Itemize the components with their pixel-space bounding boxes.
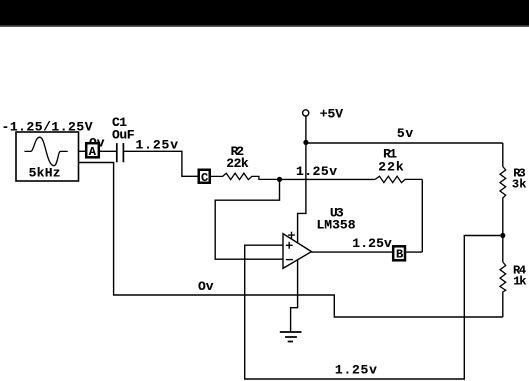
svg-text:OuF: OuF <box>112 128 135 143</box>
svg-text:1k: 1k <box>513 275 526 289</box>
svg-text:C: C <box>201 171 208 185</box>
svg-text:Ov: Ov <box>198 279 214 294</box>
svg-text:22k: 22k <box>378 159 404 174</box>
wire source bottom terminal to 0v rail and to R4 bottom <box>79 163 503 318</box>
wire non-inverting input bias (from bottom loop) <box>245 236 501 380</box>
wire 5v rail to right side rail <box>306 142 503 144</box>
wire capacitor to node C (right, down, right) <box>123 151 197 176</box>
wire node B to feedback riser <box>406 251 422 253</box>
svg-text:22k: 22k <box>226 156 249 171</box>
svg-text:5v: 5v <box>397 126 413 141</box>
svg-text:+5V: +5V <box>320 107 344 122</box>
top black banner bar <box>0 0 529 26</box>
node B marker box <box>393 246 405 260</box>
resistor R3 zigzag <box>500 167 506 200</box>
resistor R2 zigzag <box>211 173 277 179</box>
resistor R1 zigzag <box>375 176 422 182</box>
wire R4 bottom to corner <box>502 293 504 317</box>
divider junction dot (R3/R4) <box>500 233 505 238</box>
wire R3 bottom to divider junction <box>502 200 504 263</box>
feedback wire junction down-left-down to inverting input <box>215 181 283 259</box>
svg-text:1.25v: 1.25v <box>352 236 392 251</box>
wire +5V terminal down to 5v rail junction and opamp V+ pin (with jog) <box>298 116 306 243</box>
svg-text:B: B <box>396 248 403 262</box>
node C marker box <box>199 170 210 183</box>
svg-text:3k: 3k <box>512 178 527 192</box>
resistor R4 zigzag <box>500 262 506 293</box>
sine waveform inside source <box>24 137 67 166</box>
op-amp inverting input minus symbol <box>286 259 293 261</box>
wire source top terminal to node A <box>79 150 86 152</box>
svg-text:A: A <box>89 145 97 159</box>
svg-text:1.25v: 1.25v <box>136 138 179 153</box>
wire junction to R1 left lead <box>282 178 375 180</box>
svg-text:5kHz: 5kHz <box>29 165 61 180</box>
op-amp U3 triangle <box>283 234 312 269</box>
op-amp V+ pin plus symbol <box>288 232 295 239</box>
+5V terminal circle <box>303 110 309 116</box>
op-amp non-inverting input plus symbol <box>286 242 293 249</box>
ground symbol <box>280 332 302 342</box>
node A marker box <box>86 143 99 157</box>
wire node A to capacitor C1 <box>100 150 117 152</box>
op-amp output wire to node B <box>312 251 393 253</box>
capacitor C1 plates <box>117 143 124 162</box>
op-amp ground pin wire with jog <box>291 260 298 332</box>
junction node dot (R2/R1/inverting input) <box>277 177 282 182</box>
svg-text:1.25v: 1.25v <box>296 164 337 179</box>
signal source V1 box <box>16 132 79 181</box>
wire R1 right lead down to output node <box>421 179 423 252</box>
junction dot on +5V line <box>303 140 308 145</box>
svg-text:LM358: LM358 <box>317 217 356 232</box>
right rail: 5v corner down through R3 <box>502 143 504 167</box>
svg-text:1.25v: 1.25v <box>335 362 377 377</box>
